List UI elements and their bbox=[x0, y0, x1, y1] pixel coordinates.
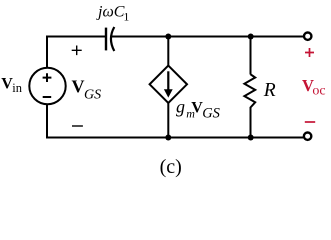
junction dot bottom current source bbox=[165, 135, 171, 141]
wire from current source to bottom rail bbox=[167, 103, 169, 138]
svg-text:g: g bbox=[176, 97, 185, 117]
capacitor C1 right curved plate bbox=[111, 27, 114, 51]
junction dot top resistor bbox=[248, 34, 254, 40]
output terminal bottom bbox=[304, 133, 311, 140]
arrow inside current source bbox=[167, 71, 169, 91]
svg-text:V: V bbox=[72, 77, 85, 97]
wire left bottom from source to bottom rail bbox=[46, 104, 48, 137]
wire from top rail to current source bbox=[167, 37, 169, 67]
output terminal top bbox=[304, 33, 311, 40]
svg-text:GS: GS bbox=[202, 105, 220, 121]
plus inside source bbox=[43, 73, 52, 82]
wire from resistor to bottom rail bbox=[250, 108, 252, 138]
svg-text:(c): (c) bbox=[160, 156, 182, 178]
wire top-left from source to capacitor bbox=[47, 37, 106, 68]
source Vin circle bbox=[29, 68, 65, 104]
resistor R zigzag bbox=[244, 74, 255, 108]
wire top from capacitor to output terminal bbox=[112, 36, 304, 38]
red plus marker bbox=[305, 48, 314, 57]
minus inside source bbox=[43, 96, 52, 98]
svg-text:GS: GS bbox=[84, 87, 101, 102]
minus marker VGS bbox=[72, 125, 83, 127]
svg-text:oc: oc bbox=[312, 84, 325, 99]
wire from top rail to resistor bbox=[250, 37, 252, 75]
svg-text:in: in bbox=[12, 81, 22, 95]
dependent current source diamond bbox=[150, 66, 187, 103]
junction dot top current source bbox=[165, 34, 171, 40]
junction dot bottom resistor bbox=[248, 135, 254, 141]
bottom wire rail bbox=[46, 137, 303, 139]
svg-text:R: R bbox=[263, 80, 276, 101]
plus marker VGS bbox=[72, 46, 82, 56]
red minus marker bbox=[305, 121, 315, 123]
capacitor C1 left plate bbox=[105, 28, 107, 51]
svg-text:1: 1 bbox=[123, 10, 129, 24]
svg-text:jωC: jωC bbox=[96, 4, 125, 21]
